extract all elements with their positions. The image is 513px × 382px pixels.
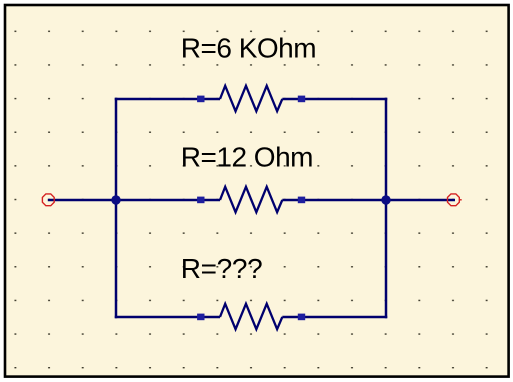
resistor R2 pin 1 square — [197, 197, 204, 204]
resistor R1 pin 1 square — [197, 96, 204, 103]
wire: bottom branch right segment — [282, 316, 387, 319]
wire: middle branch from left terminal to left resistor lead — [48, 199, 220, 202]
off-page terminal right (red octagon with pin tick) — [448, 194, 462, 206]
wire: right vertical bus from top branch to bottom branch — [385, 98, 388, 319]
off-page terminal left (red octagon) — [42, 194, 54, 206]
resistor R1 pin 2 square — [298, 96, 305, 103]
resistor R2 (middle, 12 Ohm) zigzag body — [220, 187, 282, 212]
value label R=??? — [181, 253, 263, 284]
junction node B (right bus / middle branch) — [381, 195, 390, 204]
junction node A (left bus / middle branch) — [111, 195, 120, 204]
resistor R3 (bottom, unknown) zigzag body — [220, 304, 282, 329]
wire: middle branch from resistor to right terminal — [282, 199, 455, 202]
value label R=6 KOhm — [181, 33, 316, 64]
value label R=12 Ohm — [181, 142, 313, 173]
resistor R2 pin 2 square — [298, 197, 305, 204]
svg-text:R=12 Ohm: R=12 Ohm — [181, 142, 313, 173]
resistor R1 (top, 6 KOhm) zigzag body — [220, 86, 282, 111]
svg-text:R=???: R=??? — [181, 253, 263, 284]
svg-text:R=6 KOhm: R=6 KOhm — [181, 33, 316, 64]
resistor R3 pin 2 square — [298, 314, 305, 321]
wire: top branch left segment — [115, 98, 220, 101]
wire: top branch right segment — [282, 98, 387, 101]
wire: bottom branch left segment — [115, 316, 220, 319]
resistor R3 pin 1 square — [197, 314, 204, 321]
wire: left vertical bus from top branch to bottom branch — [115, 98, 118, 319]
